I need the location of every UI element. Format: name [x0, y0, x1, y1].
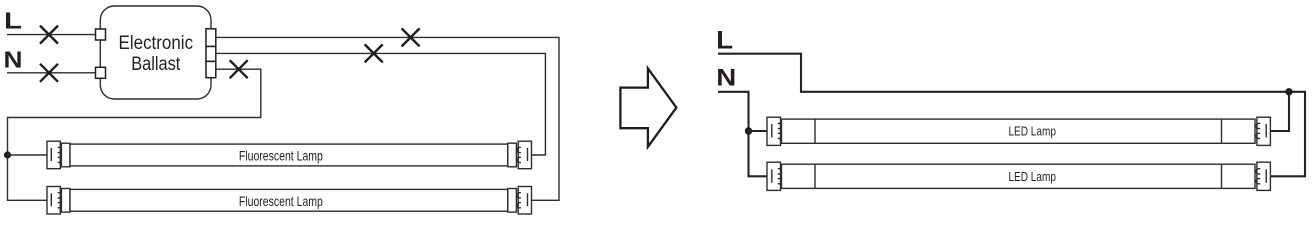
right tube end ring [508, 189, 517, 213]
svg-text:L: L [716, 27, 733, 55]
left driver divider [814, 119, 816, 143]
fluorescent lamp 1 [47, 141, 532, 169]
right socket cap [518, 187, 531, 215]
left tube end ring [61, 189, 70, 213]
left cap pin lower [778, 179, 782, 184]
left cap electrode line [771, 124, 773, 138]
wire ballast output1 to lamp2 right [216, 37, 559, 200]
tube body [782, 164, 1256, 188]
ballast output terminal 2 [206, 47, 216, 62]
tube body [70, 144, 508, 166]
tube body [782, 119, 1256, 143]
left cap pin upper [58, 147, 62, 152]
right socket cap [1257, 117, 1271, 145]
left cap pin lower [58, 203, 62, 208]
left cap electrode line [50, 148, 52, 161]
right driver divider [1221, 164, 1223, 188]
conversion arrow [620, 68, 676, 146]
right cap electrode line [1265, 124, 1267, 138]
wire N to lamps left side [718, 92, 767, 177]
junction dot left [4, 151, 11, 158]
svg-text:Fluorescent Lamp: Fluorescent Lamp [239, 149, 323, 164]
cut mark X on L wire [40, 26, 58, 44]
right cap electrode line [1265, 169, 1267, 183]
wire L to lamps right side [718, 54, 1305, 177]
junction dot N branch [745, 127, 752, 134]
left driver divider [814, 164, 816, 188]
left cap pin upper [58, 193, 62, 198]
svg-text:Electronic: Electronic [119, 33, 194, 54]
wire L to ballast [7, 34, 96, 36]
right cap pin upper [517, 193, 521, 198]
cut mark X on output1 wire [402, 28, 420, 46]
right cap pin lower [517, 203, 521, 208]
LED lamp 2 [767, 162, 1270, 190]
right cap pin lower [517, 157, 521, 162]
svg-text:Fluorescent Lamp: Fluorescent Lamp [239, 194, 323, 209]
right socket cap [518, 141, 531, 169]
left socket cap [767, 162, 781, 190]
left cap pin upper [778, 169, 782, 174]
ballast input terminal (L) [96, 29, 106, 40]
wire N to ballast [7, 72, 96, 74]
left cap electrode line [50, 193, 52, 206]
wire ballast output3 to lamps left [8, 69, 261, 200]
wire junction to lamp1 left [8, 154, 48, 156]
wire junction to LED lamp1 left [749, 130, 768, 132]
left cap pin lower [778, 133, 782, 138]
svg-text:LED Lamp: LED Lamp [1008, 170, 1056, 184]
junction dot right [1285, 88, 1292, 95]
left socket cap [47, 187, 60, 215]
fluorescent lamp 2 [47, 187, 532, 215]
svg-text:LED Lamp: LED Lamp [1008, 125, 1056, 139]
ballast output terminal 3 [206, 61, 216, 77]
left socket cap [767, 117, 781, 145]
right tube end ring [508, 143, 517, 167]
svg-text:N: N [4, 47, 23, 73]
left cap pin upper [778, 123, 782, 128]
right cap pin upper [1256, 169, 1260, 174]
wire junction to LED lamp1 right [1270, 92, 1289, 131]
svg-text:L: L [4, 8, 22, 34]
right cap pin lower [1256, 133, 1260, 138]
ballast input terminal (N) [96, 67, 106, 78]
wire ballast output2 to lamp1 right [216, 53, 546, 155]
tube body [70, 189, 508, 211]
left socket cap [47, 141, 60, 169]
left cap electrode line [771, 169, 773, 183]
svg-text:Ballast: Ballast [131, 54, 181, 75]
right cap pin upper [1256, 123, 1260, 128]
left tube end ring [61, 143, 70, 167]
right driver divider [1221, 119, 1223, 143]
cut mark X on N wire [40, 64, 58, 82]
right cap electrode line [527, 193, 529, 206]
svg-text:N: N [716, 65, 736, 92]
ballast output terminal 1 [206, 29, 216, 47]
LED lamp 1 [767, 117, 1270, 145]
right cap pin upper [517, 147, 521, 152]
cut mark X on output3 wire [230, 60, 248, 78]
left cap pin lower [58, 157, 62, 162]
right cap pin lower [1256, 179, 1260, 184]
electronic ballast box [100, 6, 211, 99]
cut mark X on output2 wire [365, 44, 383, 62]
right cap electrode line [527, 148, 529, 161]
right socket cap [1257, 162, 1271, 190]
